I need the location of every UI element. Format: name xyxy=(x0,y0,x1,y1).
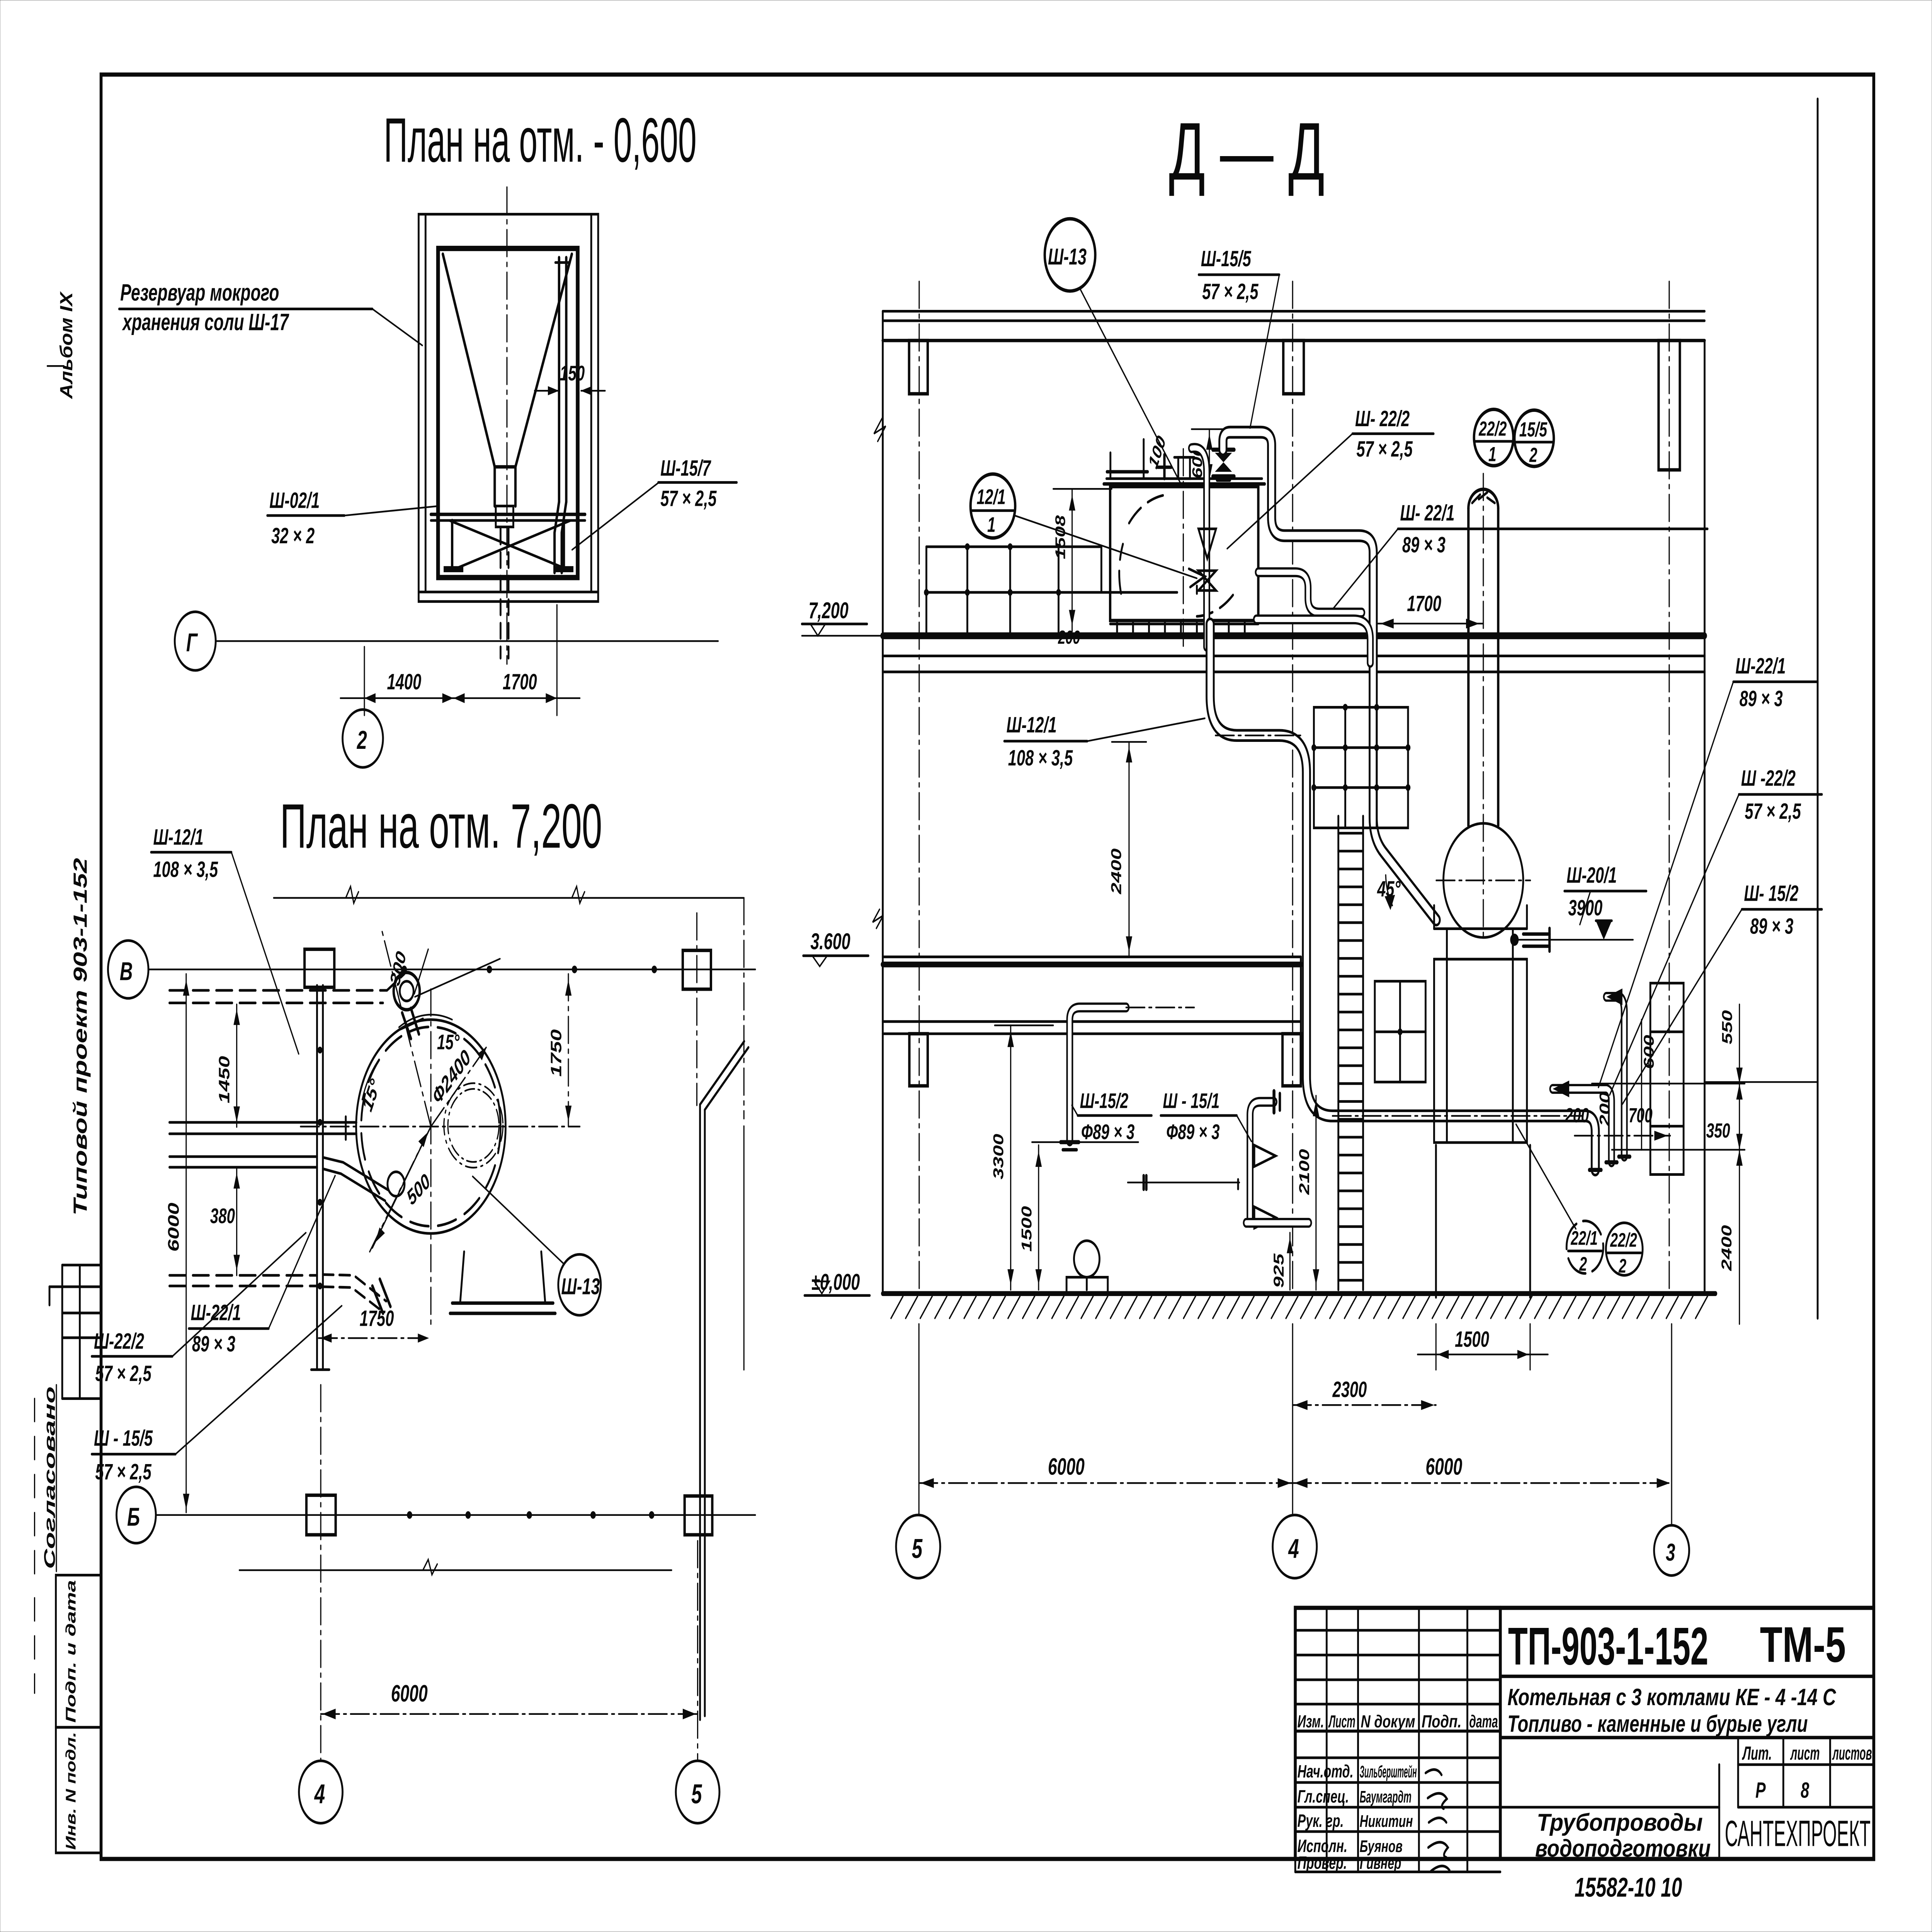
plan -0,600 title xyxy=(384,105,696,175)
svg-text:Ф89 × 3: Ф89 × 3 xyxy=(1166,1120,1219,1144)
section: column stub axis 5 xyxy=(909,282,928,1294)
pipe a (dashed) to nozzle xyxy=(169,974,404,1003)
svg-text:Топливо - каменные и бурые у: Топливо - каменные и бурые угли xyxy=(1507,1711,1808,1737)
axis lines to circles (section) xyxy=(919,1324,1672,1526)
safety valve on tank xyxy=(1213,450,1234,480)
section: left wall xyxy=(874,311,886,1293)
svg-text:1500: 1500 xyxy=(1455,1327,1489,1352)
handwritten doc number below xyxy=(1575,1872,1682,1903)
svg-text:1400: 1400 xyxy=(387,670,422,694)
label Ш-15/7 57x2,5 xyxy=(572,456,737,550)
left margin: Подп. и дата box xyxy=(34,1575,101,1727)
elevation mark 0.000 xyxy=(804,1269,870,1296)
label circle 15/5 over 2 xyxy=(1514,410,1554,466)
left margin small table top xyxy=(49,1265,101,1399)
dim 2400 vertical (mid) xyxy=(1108,742,1146,957)
svg-text:хранения соли Ш-17: хранения соли Ш-17 xyxy=(122,309,289,335)
label Ш-15/5 57x2,5 (section top) xyxy=(1199,247,1279,428)
svg-text:Никитин: Никитин xyxy=(1360,1812,1413,1831)
axis B columns xyxy=(304,949,711,989)
dim 100 rotated xyxy=(1145,432,1169,472)
dim 6000 right (section) xyxy=(1293,1454,1672,1488)
tank vent stubs xyxy=(1158,455,1194,479)
tank Ш-17 shell xyxy=(438,248,578,578)
svg-text:57 × 2,5: 57 × 2,5 xyxy=(1202,279,1259,304)
svg-text:6000: 6000 xyxy=(1425,1454,1462,1480)
svg-text:3.600: 3.600 xyxy=(810,929,850,954)
svg-text:2100: 2100 xyxy=(1296,1149,1312,1195)
svg-text:В: В xyxy=(120,957,133,986)
svg-text:Зильберштейн: Зильберштейн xyxy=(1360,1762,1417,1781)
svg-text:САНТЕХПРОЕКТ: САНТЕХПРОЕКТ xyxy=(1725,1813,1871,1854)
pipe chase wall on axis 4 xyxy=(311,985,329,1369)
svg-text:3300: 3300 xyxy=(990,1134,1006,1180)
svg-text:Резервуар мокрого: Резервуар мокрого xyxy=(120,279,279,306)
ground floor pipe drops right of boiler xyxy=(1553,988,1630,1162)
svg-text:2300: 2300 xyxy=(1332,1378,1367,1402)
stair xyxy=(1338,816,1363,1290)
nozzle circle top xyxy=(394,973,423,1039)
tank support ring xyxy=(431,514,585,520)
dim 2300 xyxy=(1293,1378,1436,1410)
pipe d (dashed) with diagonal xyxy=(169,1275,390,1313)
tank Ш-13 circle plan xyxy=(356,1020,506,1233)
svg-text:План на отм. 7,200: План на отм. 7,200 xyxy=(280,791,602,861)
boiler foundation xyxy=(1436,1145,1530,1298)
svg-text:Гл.спец.: Гл.спец. xyxy=(1298,1787,1349,1807)
section title Д - Д xyxy=(1169,106,1325,197)
svg-text:Ф2400: Ф2400 xyxy=(429,1045,474,1109)
svg-text:дата: дата xyxy=(1469,1712,1498,1731)
svg-text:1450: 1450 xyxy=(216,1056,233,1104)
svg-text:Ш - 15/1: Ш - 15/1 xyxy=(1163,1089,1219,1113)
svg-text:2: 2 xyxy=(1618,1255,1626,1277)
svg-text:Ш- 22/1: Ш- 22/1 xyxy=(1400,501,1454,526)
svg-text:Альбом IХ: Альбом IХ xyxy=(56,291,76,400)
svg-text:550: 550 xyxy=(1719,1010,1735,1044)
axis 5 centerline lower (plan) xyxy=(697,1541,699,1760)
platform grid on 7.200 xyxy=(924,543,1177,636)
axis 4 centerline (plan) xyxy=(320,1385,322,1760)
svg-text:15/5: 15/5 xyxy=(1519,418,1548,441)
svg-text:22/1: 22/1 xyxy=(1570,1228,1597,1250)
svg-text:Ш-13: Ш-13 xyxy=(561,1274,600,1299)
svg-text:Баумгардт: Баумгардт xyxy=(1360,1787,1412,1806)
ground hatching xyxy=(891,1296,1708,1318)
right bay duct rectangle xyxy=(1650,983,1684,1174)
svg-text:Р: Р xyxy=(1755,1778,1766,1803)
axis Б columns xyxy=(306,1495,712,1535)
svg-text:7,200: 7,200 xyxy=(809,598,849,623)
deaerator tank body xyxy=(1104,449,1265,647)
svg-text:Ш- 15/2: Ш- 15/2 xyxy=(1744,881,1798,906)
label Ш-15/5 57x2,5 (plan) xyxy=(92,1306,342,1484)
svg-text:Ф89 × 3: Ф89 × 3 xyxy=(1081,1120,1134,1144)
svg-text:89 × 3: 89 × 3 xyxy=(1750,914,1793,939)
svg-text:Гивнер: Гивнер xyxy=(1360,1854,1401,1872)
pipe b into tank left xyxy=(169,1117,356,1139)
dim 3300 vertical xyxy=(990,1026,1053,1290)
overflow pipe with funnel and valve inside tank xyxy=(1192,448,1216,647)
svg-text:8: 8 xyxy=(1801,1778,1810,1803)
label circle Ш-13 (section) xyxy=(1045,219,1181,484)
manhole circles xyxy=(444,1083,503,1168)
svg-text:Ш-15/2: Ш-15/2 xyxy=(1080,1089,1129,1113)
salt storage pit outer walls xyxy=(418,214,598,601)
label Ш-15/2 89x3 (right) xyxy=(1622,881,1822,1104)
svg-text:Ш-12/1: Ш-12/1 xyxy=(153,825,203,850)
dim 1500 vertical at tank xyxy=(1053,489,1112,631)
svg-text:Провер.: Провер. xyxy=(1298,1853,1347,1873)
svg-text:Ш-15/5: Ш-15/5 xyxy=(1201,247,1252,271)
section: right bay ledge xyxy=(1704,1081,1818,1083)
svg-text:2: 2 xyxy=(357,726,367,755)
label Ш-22/2 57x2,5 (plan) xyxy=(92,1233,306,1386)
label circle 12/1 over 1 xyxy=(971,474,1205,587)
svg-text:57 × 2,5: 57 × 2,5 xyxy=(1356,437,1413,462)
dim 925 vertical xyxy=(1270,1233,1293,1290)
svg-text:108 × 3,5: 108 × 3,5 xyxy=(153,857,218,882)
svg-text:Ш-20/1: Ш-20/1 xyxy=(1566,863,1617,888)
boiler body xyxy=(1434,905,1527,1142)
label Ш-22/2 57x2,5 (right) xyxy=(1610,766,1822,1095)
svg-text:57 × 2,5: 57 × 2,5 xyxy=(660,486,717,511)
svg-text:1500: 1500 xyxy=(1018,1206,1034,1252)
svg-text:925: 925 xyxy=(1270,1253,1287,1288)
elevation mark 7,200 xyxy=(802,598,883,636)
axis 5 centerline (plan) xyxy=(696,913,698,1105)
svg-text:Инв. N подл.: Инв. N подл. xyxy=(63,1732,79,1850)
dim 600 rotated xyxy=(1190,429,1229,484)
tank saddle support xyxy=(450,1252,556,1313)
bottom dim 1750 xyxy=(319,1306,431,1342)
svg-text:89 × 3: 89 × 3 xyxy=(192,1332,235,1356)
svg-text:108 × 3,5: 108 × 3,5 xyxy=(1008,746,1073,770)
pipe Ш-15/5 from safety valve xyxy=(1223,432,1436,920)
tank centerlines xyxy=(301,927,580,1328)
svg-text:1750: 1750 xyxy=(360,1306,394,1331)
label circle Ш-13 xyxy=(473,1177,601,1315)
svg-text:Ш-15/7: Ш-15/7 xyxy=(660,456,711,481)
tank funnel cone xyxy=(443,254,572,527)
section: floor 3.600 xyxy=(883,957,1301,1034)
svg-text:Лит.: Лит. xyxy=(1742,1743,1772,1764)
dimension line 1400 / 1700 xyxy=(340,605,580,716)
svg-text:2400: 2400 xyxy=(1108,848,1124,895)
svg-text:57 × 2,5: 57 × 2,5 xyxy=(1745,799,1801,824)
label Ш-20/1 3900 with flag xyxy=(1514,863,1646,940)
svg-text:Ш-13: Ш-13 xyxy=(1048,244,1087,269)
section: roof slab lines xyxy=(883,311,1705,340)
dim 300 at nozzle xyxy=(386,948,500,997)
dim 6000 bottom (plan) xyxy=(321,1680,697,1719)
svg-text:Ш-22/2: Ш-22/2 xyxy=(94,1329,144,1354)
45 deg label and arc xyxy=(1377,875,1400,910)
dim 200 under platform xyxy=(1058,627,1080,648)
svg-text:2: 2 xyxy=(1529,443,1537,466)
title block outer xyxy=(1295,1608,1874,1859)
tank skirt hatch xyxy=(1110,621,1258,636)
title block: lit/list/listov xyxy=(1500,1738,1874,1807)
svg-text:6000: 6000 xyxy=(1048,1454,1085,1480)
section: beam stubs under 3.600 xyxy=(909,1034,1301,1086)
svg-text:5: 5 xyxy=(912,1533,923,1564)
drum right stub Ш-20/1 xyxy=(1510,929,1549,951)
svg-text:Трубопроводы: Трубопроводы xyxy=(1537,1809,1703,1836)
title block signature rows xyxy=(1298,1762,1450,1873)
dim 380 xyxy=(210,1168,240,1276)
section: column stub axis 3 xyxy=(1658,282,1680,1294)
boiler uptake / chimney xyxy=(1468,474,1498,936)
right dims 550 350 600 xyxy=(1592,1004,1745,1324)
tank lid railing xyxy=(1107,439,1148,478)
dims 200 200 700 xyxy=(1565,1092,1670,1141)
svg-text:1700: 1700 xyxy=(1407,591,1441,616)
section: far right wall xyxy=(1816,99,1819,1318)
label circle 22/2 over 1 xyxy=(1474,409,1514,466)
svg-text:2400: 2400 xyxy=(1718,1225,1735,1271)
elevation mark 3.600 xyxy=(803,909,883,966)
title block left table grid xyxy=(1295,1608,1500,1872)
svg-text:Котельная с 3 котлами КЕ - 4: Котельная с 3 котлами КЕ - 4 -14 С xyxy=(1507,1684,1836,1711)
svg-text:22/2: 22/2 xyxy=(1478,417,1507,440)
svg-text:N докум: N докум xyxy=(1361,1712,1415,1731)
svg-text:6000: 6000 xyxy=(391,1680,428,1707)
dim 2100 vertical xyxy=(1296,1096,1319,1290)
pipe c with diagonal into tank xyxy=(169,1156,404,1201)
label: Резервуар мокрого хранения соли Ш-17 xyxy=(119,279,422,345)
section: column stub axis 4 xyxy=(1283,282,1304,1294)
svg-text:Ш -22/2: Ш -22/2 xyxy=(1741,766,1796,791)
svg-text:Типовой проект 903-1-152: Типовой проект 903-1-152 xyxy=(70,858,91,1216)
Ф2400 label xyxy=(429,1045,474,1109)
svg-text:ТМ-5: ТМ-5 xyxy=(1760,1616,1846,1673)
svg-text:Подп. и дата: Подп. и дата xyxy=(63,1580,79,1723)
tank internal pipe Ш-15/7 xyxy=(554,258,570,573)
tank bottom bracing xyxy=(444,520,573,572)
axis Б circle and line xyxy=(116,1487,755,1543)
left margin: Согласовано box xyxy=(34,1385,58,1575)
svg-text:1750: 1750 xyxy=(548,1029,565,1077)
svg-text:6000: 6000 xyxy=(165,1202,182,1252)
svg-text:Изм.: Изм. xyxy=(1298,1712,1324,1731)
title block: drawing name xyxy=(1535,1765,1719,1862)
svg-text:89 × 3: 89 × 3 xyxy=(1740,686,1783,711)
svg-text:Нач.отд.: Нач.отд. xyxy=(1298,1762,1354,1782)
svg-text:Ш-12/1: Ш-12/1 xyxy=(1007,713,1057,737)
axis circle 4 (section) xyxy=(1273,1515,1317,1578)
svg-text:5: 5 xyxy=(691,1779,702,1809)
pipe Ш-15/1 lower xyxy=(1128,1091,1309,1228)
svg-text:Ш-22/1: Ш-22/1 xyxy=(191,1301,241,1325)
svg-text:57 × 2,5: 57 × 2,5 xyxy=(95,1459,151,1484)
label Ш-22/2 57x2,5 (section mid) xyxy=(1227,406,1434,549)
svg-text:1700: 1700 xyxy=(503,670,537,694)
label Ш-15/2 Ф89x3 xyxy=(1072,1089,1151,1144)
svg-text:2: 2 xyxy=(1579,1253,1587,1275)
furnace screen grid upper xyxy=(1311,704,1410,828)
svg-text:Подп.: Подп. xyxy=(1422,1712,1461,1731)
svg-text:32 × 2: 32 × 2 xyxy=(271,524,315,548)
label Ш-12/1 108x3,5 (plan) xyxy=(151,825,299,1054)
svg-text:200: 200 xyxy=(1597,1092,1613,1126)
vertical dim 1450 xyxy=(216,1004,240,1127)
pipe Ш-22/1 under tank xyxy=(1257,619,1371,663)
pipe Ш-15/2 lower left xyxy=(1061,1007,1194,1150)
section: ground line 0.000 xyxy=(883,1291,1716,1296)
axis circle 5 (plan) xyxy=(676,1761,719,1823)
label circles 22/1-2 and 22/2-2 xyxy=(1516,1124,1643,1277)
axis circle 3 (section) xyxy=(1654,1525,1689,1575)
dim 6000 left (section) xyxy=(919,1454,1293,1488)
svg-text:водоподготовки: водоподготовки xyxy=(1535,1835,1711,1862)
svg-text:Буянов: Буянов xyxy=(1360,1837,1403,1856)
svg-text:Ш-22/1: Ш-22/1 xyxy=(1735,654,1786,679)
section: right inner wall xyxy=(1703,340,1706,1294)
axis 2 circle xyxy=(343,709,383,767)
svg-text:лист: лист xyxy=(1790,1743,1820,1764)
svg-text:Б: Б xyxy=(127,1503,140,1531)
svg-text:200: 200 xyxy=(1565,1104,1589,1127)
svg-text:Д — Д: Д — Д xyxy=(1169,106,1325,197)
label Ш-02/1 32x2 xyxy=(267,488,439,548)
left margin: Инв. N подл. box xyxy=(56,1727,101,1853)
label Ш-12/1 108x3,5 (section) xyxy=(1004,713,1205,770)
svg-text:15582-10 10: 15582-10 10 xyxy=(1575,1872,1682,1903)
svg-text:150: 150 xyxy=(560,362,585,385)
svg-text:Г: Г xyxy=(186,629,198,657)
boiler drum xyxy=(1436,823,1531,937)
svg-text:4: 4 xyxy=(314,1779,325,1809)
break line below Б xyxy=(239,1560,672,1575)
svg-text:1: 1 xyxy=(987,513,995,537)
label Ш-15/1 Ф89x3 xyxy=(1161,1089,1252,1144)
axis B circle and line xyxy=(108,940,755,998)
svg-text:500: 500 xyxy=(404,1169,434,1210)
pump xyxy=(1066,1241,1108,1294)
svg-text:200: 200 xyxy=(1058,627,1080,648)
vertical dim 1750 right xyxy=(548,974,571,1127)
svg-text:Лист: Лист xyxy=(1328,1712,1355,1731)
svg-text:22/2: 22/2 xyxy=(1610,1229,1637,1251)
axis circle 4 (plan) xyxy=(299,1761,343,1823)
left margin vertical text: Альбом IX xyxy=(48,291,76,400)
svg-text:Ш - 15/5: Ш - 15/5 xyxy=(94,1426,153,1451)
dim 1500 vertical xyxy=(1018,1142,1138,1290)
svg-text:4: 4 xyxy=(1288,1533,1299,1564)
axis circle 5 (section) xyxy=(896,1515,940,1578)
plan 7,200 title xyxy=(280,791,602,861)
svg-text:1: 1 xyxy=(1488,442,1497,466)
svg-text:350: 350 xyxy=(1706,1119,1730,1142)
svg-text:листов: листов xyxy=(1832,1743,1872,1764)
dimension 150 xyxy=(535,362,605,395)
title block header row texts xyxy=(1298,1712,1498,1731)
svg-text:Рук. гр.: Рук. гр. xyxy=(1298,1811,1344,1831)
15 deg labels and arcs xyxy=(359,1015,460,1115)
plan right wall with chamfer xyxy=(700,898,748,1720)
svg-text:12/1: 12/1 xyxy=(977,485,1006,509)
svg-text:600: 600 xyxy=(1641,1035,1657,1069)
svg-text:Согласовано: Согласовано xyxy=(41,1386,58,1569)
label Ш-22/1 89x3 (section mid) with long shelf xyxy=(1333,501,1708,609)
title block: TP-903-1-152 and TM-5 xyxy=(1500,1616,1874,1677)
pipe Ш-22/2 from tank wall xyxy=(1258,572,1362,612)
support dots on axis lines xyxy=(318,966,657,1519)
label Ш-22/1 89x3 (right) xyxy=(1599,654,1816,1087)
svg-text:3: 3 xyxy=(1666,1539,1675,1566)
pipe Ш-12/1 drop and run xyxy=(1210,624,1601,1170)
svg-text:План на отм. - 0,600: План на отм. - 0,600 xyxy=(384,105,696,175)
axis Г circle xyxy=(175,612,718,670)
dim 1500 foundation xyxy=(1418,1324,1548,1370)
svg-text:89 × 3: 89 × 3 xyxy=(1402,533,1446,558)
tank centerline xyxy=(506,187,508,664)
svg-text:ТП-903-1-152: ТП-903-1-152 xyxy=(1508,1617,1708,1676)
svg-text:Ш- 22/2: Ш- 22/2 xyxy=(1355,406,1410,431)
dim 1700 (pipe to chimney) xyxy=(1377,591,1483,628)
svg-text:700: 700 xyxy=(1629,1104,1653,1127)
label Ш-22/1 89x3 (plan) xyxy=(189,1176,335,1357)
svg-text:1508: 1508 xyxy=(1053,515,1068,559)
plan 7200: top wall dashed edge xyxy=(274,886,744,903)
vertical dim 6000 (B to Б) xyxy=(165,974,189,1512)
dim 500 xyxy=(372,1127,434,1248)
title block: object name lines xyxy=(1500,1684,1874,1738)
section: floor 7.200 xyxy=(883,636,1705,672)
svg-text:15°: 15° xyxy=(437,1031,460,1054)
svg-text:380: 380 xyxy=(210,1204,235,1228)
title block: SANTEHPROEKT xyxy=(1725,1813,1871,1854)
pipe stubs below tank xyxy=(500,529,509,658)
furnace screen grid lower xyxy=(1375,981,1425,1082)
svg-text:Ш-02/1: Ш-02/1 xyxy=(269,488,320,513)
left margin vertical text: Типовой проект 903-1-152 xyxy=(70,858,91,1216)
svg-text:57 × 2,5: 57 × 2,5 xyxy=(95,1361,151,1386)
